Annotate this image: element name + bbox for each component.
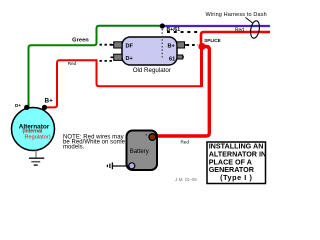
- svg-text:Battery: Battery: [130, 149, 149, 155]
- svg-text:Regulator): Regulator): [24, 135, 50, 141]
- svg-text:Wiring Harness to Dash: Wiring Harness to Dash: [206, 12, 267, 18]
- svg-text:Old Regulator: Old Regulator: [133, 67, 171, 74]
- svg-text:D+: D+: [15, 103, 21, 108]
- svg-text:61: 61: [169, 57, 175, 63]
- svg-text:Red: Red: [180, 139, 189, 144]
- svg-text:J.M. 01-09: J.M. 01-09: [175, 177, 197, 182]
- svg-text:Red: Red: [235, 27, 244, 33]
- svg-text:B+: B+: [45, 98, 54, 105]
- svg-text:models.: models.: [63, 145, 85, 151]
- svg-text:B+: B+: [168, 43, 176, 49]
- svg-text:DF: DF: [126, 43, 134, 49]
- svg-text:B+/61: B+/61: [167, 27, 181, 33]
- svg-text:(Internal: (Internal: [23, 128, 43, 134]
- svg-text:D+: D+: [126, 56, 134, 62]
- svg-text:SPLICE: SPLICE: [204, 38, 220, 43]
- svg-text:Green: Green: [72, 38, 89, 44]
- svg-text:+: +: [145, 133, 148, 138]
- svg-text:Red: Red: [68, 61, 77, 66]
- svg-text:(Type I ): (Type I ): [220, 173, 252, 182]
